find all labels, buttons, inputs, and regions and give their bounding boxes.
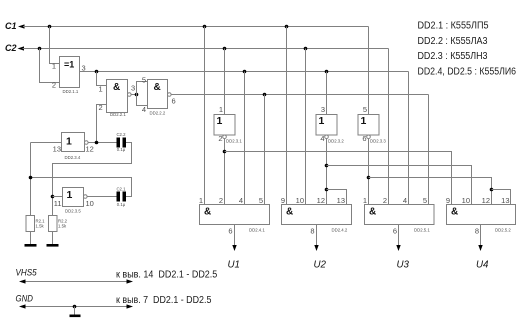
- svg-text:13: 13: [501, 196, 509, 205]
- junction XOR/DD2.3.2 input: [325, 70, 329, 74]
- svg-text:10: 10: [86, 199, 94, 208]
- junction DD2.3.1 out branch: [223, 150, 227, 154]
- svg-text:&: &: [286, 207, 293, 218]
- wire tie to DD2.4.2 pin 13: [327, 190, 347, 205]
- junction XOR/DD2.4.1 pin4: [243, 70, 247, 74]
- svg-text:11: 11: [54, 199, 62, 208]
- junction DD2.3.2 out tie pins 12-13: [325, 188, 329, 192]
- inverter DD2.3.5 body: [63, 188, 84, 207]
- wire C2.1 return loop to DD2.3.4 input node: [31, 178, 132, 197]
- wire C2 drop to DD2.5.1 pin 2: [388, 49, 390, 205]
- wire R2.2 to ground: [52, 232, 54, 245]
- wire DD2.3.1 output down to DD2.4.1 pin 2: [224, 139, 226, 205]
- svg-text:6: 6: [393, 227, 397, 236]
- svg-text:5: 5: [363, 105, 367, 114]
- junction NAND/DD2.4.1 pin5: [263, 93, 267, 97]
- svg-text:DD2.2.1: DD2.2.1: [110, 112, 126, 117]
- wire DD2.4.1 output: [234, 225, 236, 246]
- arrowhead VHS5 left: [19, 279, 26, 283]
- svg-text:DD2.3.4: DD2.3.4: [65, 155, 81, 160]
- wire DD2.3.1 out to DD2.5.2 pin 9: [225, 152, 452, 205]
- svg-text:0.1μ: 0.1μ: [117, 202, 126, 207]
- nand gate DD2.2.2 body: [148, 80, 168, 109]
- ground under R2.1: [25, 244, 37, 247]
- svg-text:4: 4: [320, 134, 324, 143]
- svg-text:2: 2: [218, 134, 222, 143]
- wire C2 to DD2.3.1 input pin 1: [224, 49, 226, 115]
- svg-text:1: 1: [66, 136, 72, 148]
- junction C2/DD2.3.1 input: [223, 47, 227, 51]
- wire C1 to DD2.1.1 pin 1: [50, 27, 60, 64]
- svg-text:8: 8: [310, 227, 314, 236]
- ground symbol on GND line: [70, 315, 81, 318]
- svg-text:8: 8: [475, 227, 479, 236]
- svg-text:C1: C1: [5, 21, 17, 31]
- wire NAND output rail: [171, 94, 428, 96]
- wire DD2.3.2 out to DD2.5.2 pin 10: [327, 166, 472, 205]
- wire DD2.3.4 input pin 13: [31, 142, 62, 144]
- wire DD2.3.4 output to C2.2: [88, 142, 116, 144]
- wire C2 net horizontal rail: [23, 48, 389, 50]
- svg-text:U1: U1: [228, 259, 241, 271]
- svg-text:&: &: [204, 207, 211, 218]
- wire to DD2.2.2 pin 5: [137, 82, 148, 95]
- wire DD2.5.1 output: [398, 225, 400, 246]
- svg-text:6: 6: [172, 97, 176, 106]
- wire C2 to DD2.4.2 pin 10: [305, 49, 307, 205]
- and gate DD2.4.2 body: [282, 205, 352, 225]
- inverter DD2.3.4 body: [62, 133, 85, 152]
- svg-text:12: 12: [86, 145, 94, 154]
- svg-text:DD2.4.1: DD2.4.1: [249, 228, 265, 233]
- svg-text:2: 2: [383, 196, 387, 205]
- svg-text:DD2.3.1: DD2.3.1: [226, 139, 242, 144]
- capacitor C2.2 plates: [117, 138, 121, 148]
- wire VHS5 distribution line: [24, 281, 127, 283]
- svg-text:&: &: [113, 82, 120, 93]
- svg-text:DD2.2 : К555ЛА3: DD2.2 : К555ЛА3: [418, 36, 488, 47]
- svg-text:DD2.3 : К555ЛН3: DD2.3 : К555ЛН3: [418, 51, 488, 62]
- resistor R2.2 body: [49, 216, 58, 232]
- svg-text:DD2.5.2: DD2.5.2: [495, 228, 511, 233]
- output bubble DD2.2.2: [168, 93, 172, 97]
- resistor R2.1 body: [26, 216, 35, 232]
- output bubble DD2.3.5: [84, 195, 88, 199]
- wire XOR to DD2.4.1 pin 4: [244, 72, 246, 205]
- wire DD2.3.4 input node vertical to R2.1: [30, 143, 32, 216]
- svg-text:5: 5: [142, 76, 146, 85]
- svg-text:C2: C2: [5, 43, 17, 53]
- and gate DD2.5.2 body: [447, 205, 516, 225]
- wire GND stub to ground: [74, 307, 76, 315]
- svg-text:DD2.5.1: DD2.5.1: [414, 228, 430, 233]
- svg-text:U4: U4: [476, 259, 489, 271]
- svg-text:к выв. 14 DD2.1 - DD2.5: к выв. 14 DD2.1 - DD2.5: [116, 270, 218, 281]
- svg-text:1: 1: [361, 115, 367, 127]
- svg-text:1: 1: [199, 196, 203, 205]
- wire DD2.3.2 output down to DD2.4.2 pin 12: [326, 139, 328, 205]
- wire R2.1 to ground: [30, 232, 32, 245]
- arrowhead output U4: [478, 245, 482, 251]
- wire C2.2 return loop to DD2.3.5 input: [53, 143, 132, 216]
- junction DD2.3.4 out / DD2.2.1 pin2: [95, 141, 99, 145]
- ground under R2.2: [47, 244, 59, 247]
- svg-text:DD2.1.1: DD2.1.1: [63, 89, 79, 94]
- op element: XOR gate DD2.1.1 body: [60, 57, 80, 88]
- svg-text:12: 12: [317, 196, 325, 205]
- arrowhead output U3: [396, 245, 400, 251]
- svg-text:DD2.3.2: DD2.3.2: [328, 139, 344, 144]
- svg-text:C2.2: C2.2: [116, 132, 126, 137]
- junction C1/DD2.4.1 pin1: [203, 25, 207, 29]
- svg-text:VHS5: VHS5: [16, 268, 38, 279]
- svg-text:1.5k: 1.5k: [36, 224, 45, 229]
- svg-text:DD2.4, DD2.5 : К555ЛИ6: DD2.4, DD2.5 : К555ЛИ6: [418, 66, 517, 77]
- wire C2 to DD2.1.1 pin 2: [40, 49, 60, 83]
- junction DD2.3.3 out branch to G4: [367, 176, 371, 180]
- svg-text:DD2.4.2: DD2.4.2: [332, 228, 348, 233]
- svg-text:1: 1: [217, 115, 223, 127]
- wire XOR to DD2.2.1 pin 1: [97, 72, 107, 86]
- and gate DD2.4.1 body: [200, 205, 270, 225]
- svg-text:6: 6: [362, 134, 366, 143]
- svg-text:6: 6: [228, 227, 232, 236]
- junction C2/XOR pin2: [38, 47, 42, 51]
- svg-text:1: 1: [219, 105, 223, 114]
- nand gate DD2.2.1 body: [107, 80, 128, 113]
- svg-text:9: 9: [446, 196, 450, 205]
- output bubble DD2.2.1: [128, 93, 132, 97]
- svg-text:10: 10: [296, 196, 304, 205]
- arrowhead GND right: [127, 304, 134, 308]
- junction DD2.3.5 input node: [51, 195, 55, 199]
- node C2 arrowhead: [18, 46, 25, 50]
- inverter DD2.3.2 body: [316, 115, 337, 136]
- inverter DD2.3.1 body: [214, 115, 235, 136]
- svg-text:1: 1: [52, 62, 56, 71]
- svg-text:U2: U2: [314, 259, 327, 271]
- svg-text:&: &: [369, 207, 376, 218]
- svg-text:1: 1: [363, 196, 367, 205]
- junction C2/DD2.4.2 pin10: [304, 47, 308, 51]
- arrowhead output U1: [232, 245, 236, 251]
- svg-text:DD2.1 : К555ЛП5: DD2.1 : К555ЛП5: [418, 21, 489, 32]
- output bubble DD2.3.4: [85, 141, 89, 145]
- wire NAND rail drop to DD2.5.1 pin 5: [428, 95, 430, 205]
- junction C1/XOR pin1: [48, 25, 52, 29]
- svg-text:C2.1: C2.1: [116, 187, 126, 192]
- wire DD2.4.2 output: [316, 225, 318, 246]
- svg-text:1: 1: [99, 85, 103, 94]
- node C1 arrowhead: [18, 24, 25, 28]
- wire C1 to DD2.4.2 pin 9: [286, 27, 288, 205]
- wire C1 net horizontal rail: [23, 26, 369, 28]
- svg-text:DD2.3.3: DD2.3.3: [370, 139, 386, 144]
- svg-text:&: &: [154, 82, 161, 93]
- junction DD2.3.4 input node: [29, 176, 33, 180]
- svg-text:=1: =1: [64, 60, 74, 70]
- wire tie to DD2.5.2 pin 13: [492, 190, 511, 205]
- svg-text:1.5k: 1.5k: [58, 224, 67, 229]
- arrowhead output U2: [314, 245, 318, 251]
- svg-text:4: 4: [142, 105, 146, 114]
- wire DD2.3.3 output down to DD2.5.1 pin 1: [368, 139, 370, 205]
- wire DD2.2.1 pin 2 elbow down to oscillator: [97, 105, 107, 143]
- svg-text:к выв. 7 DD2.1 - DD2.5: к выв. 7 DD2.1 - DD2.5: [116, 295, 212, 306]
- svg-text:U3: U3: [397, 259, 410, 271]
- svg-text:DD2.3.5: DD2.3.5: [65, 209, 81, 214]
- and gate DD2.5.1 body: [365, 205, 435, 225]
- junction XOR/DD2.2.1 pin1: [95, 70, 99, 74]
- svg-text:DD2.2.2: DD2.2.2: [150, 111, 166, 116]
- svg-text:9: 9: [281, 196, 285, 205]
- capacitor C2.1 plates: [117, 192, 121, 202]
- svg-text:10: 10: [462, 196, 470, 205]
- svg-text:3: 3: [131, 84, 135, 93]
- wire DD2.5.2 output: [480, 225, 482, 246]
- wire C1 drop to DD2.3.3 input: [368, 27, 370, 115]
- svg-text:13: 13: [53, 145, 61, 154]
- svg-text:3: 3: [321, 105, 325, 114]
- junction tie DD2.5.2 pins 12-13: [490, 188, 494, 192]
- wire C1 to DD2.4.1 pin 1: [204, 27, 206, 205]
- output bubble DD2.3.1: [223, 135, 227, 139]
- inverter DD2.3.3 body: [358, 115, 379, 136]
- svg-text:5: 5: [259, 196, 263, 205]
- output bubble DD2.3.2: [325, 135, 329, 139]
- junction GND/ground: [73, 305, 77, 309]
- wire DD2.3.5 output to C2.1: [87, 196, 116, 198]
- wire XOR output rail: [80, 71, 409, 73]
- svg-text:4: 4: [403, 196, 407, 205]
- svg-text:&: &: [451, 207, 458, 218]
- svg-text:1: 1: [319, 115, 325, 127]
- svg-text:0.1μ: 0.1μ: [117, 147, 126, 152]
- junction C1/DD2.4.2 pin9: [285, 25, 289, 29]
- wire NAND to DD2.4.1 pin 5: [264, 95, 266, 205]
- arrowhead VHS5 right: [127, 279, 134, 283]
- wire GND distribution line: [24, 306, 127, 308]
- junction DD2.3.2 out branch to G4: [325, 164, 329, 168]
- svg-text:12: 12: [482, 196, 490, 205]
- wire DD2.3.3 out to DD2.5.2 pin 12: [369, 178, 492, 205]
- output bubble DD2.3.3: [367, 135, 371, 139]
- svg-text:4: 4: [239, 196, 243, 205]
- wire XOR to DD2.3.2 input pin 3: [326, 72, 328, 115]
- junction DD2.2.1 out / DD2.2.2 inputs: [135, 93, 139, 97]
- arrowhead GND left: [19, 304, 26, 308]
- svg-text:1: 1: [67, 189, 73, 201]
- wire to DD2.2.2 pin 4: [137, 95, 148, 106]
- svg-text:GND: GND: [16, 294, 34, 305]
- svg-text:2: 2: [219, 196, 223, 205]
- svg-text:13: 13: [337, 196, 345, 205]
- svg-text:2: 2: [52, 81, 56, 90]
- wire XOR rail drop to DD2.5.1 pin 4: [408, 72, 410, 205]
- svg-text:5: 5: [423, 196, 427, 205]
- wire into DD2.3.5 pin 11: [53, 196, 63, 198]
- wire DD2.2.1 output to junction: [131, 94, 136, 96]
